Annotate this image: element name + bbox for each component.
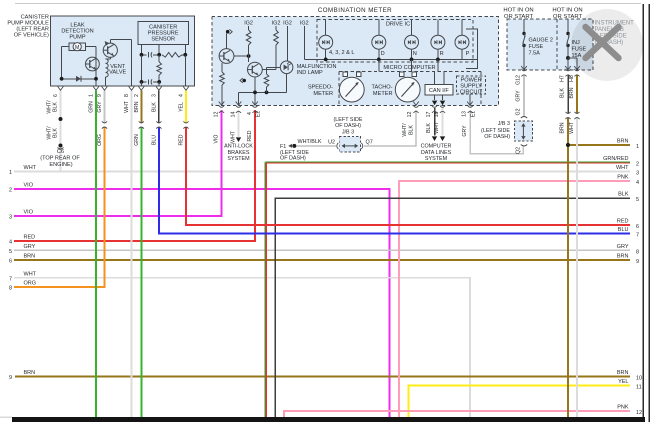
svg-text:HOT IN ON: HOT IN ON: [503, 8, 533, 14]
svg-text:OF DASH): OF DASH): [335, 123, 361, 129]
svg-text:WHT: WHT: [231, 130, 237, 143]
svg-text:Q7: Q7: [366, 140, 373, 146]
svg-text:BRN: BRN: [569, 87, 575, 98]
svg-text:9: 9: [9, 375, 12, 381]
svg-text:7: 7: [636, 233, 639, 239]
svg-text:OF DASH): OF DASH): [280, 156, 306, 162]
svg-text:WHT: WHT: [24, 271, 37, 277]
svg-text:H8: H8: [569, 75, 575, 82]
svg-text:7: 7: [9, 276, 12, 282]
svg-text:DRIVE IC: DRIVE IC: [386, 22, 410, 28]
svg-text:12: 12: [214, 112, 220, 118]
svg-text:RED: RED: [179, 134, 185, 145]
svg-text:VIO: VIO: [214, 135, 220, 144]
svg-text:DATA LINES: DATA LINES: [421, 150, 452, 156]
svg-text:GRN: GRN: [89, 101, 95, 113]
svg-text:1: 1: [636, 144, 639, 150]
svg-text:7.5A: 7.5A: [529, 51, 541, 57]
svg-text:OF DASH): OF DASH): [484, 134, 510, 140]
svg-text:ORG: ORG: [97, 134, 103, 146]
svg-text:BLK: BLK: [151, 102, 157, 112]
svg-text:VIO: VIO: [24, 183, 34, 189]
svg-text:PNK: PNK: [617, 405, 629, 411]
svg-text:8: 8: [636, 249, 639, 255]
svg-text:H7: H7: [560, 75, 566, 82]
svg-text:P: P: [466, 51, 470, 57]
svg-text:COMPUTER: COMPUTER: [421, 144, 452, 150]
svg-text:2: 2: [134, 94, 140, 97]
svg-text:2: 2: [9, 188, 12, 194]
svg-text:BLK: BLK: [426, 123, 432, 133]
svg-text:BLK: BLK: [53, 128, 59, 138]
svg-text:4: 4: [9, 239, 12, 245]
svg-text:U2: U2: [328, 140, 335, 146]
svg-text:RED: RED: [247, 130, 253, 141]
svg-text:14: 14: [231, 112, 237, 118]
svg-text:3: 3: [636, 171, 639, 177]
svg-text:11: 11: [636, 385, 642, 391]
svg-text:4: 4: [179, 94, 185, 97]
svg-text:VALVE: VALVE: [109, 70, 126, 76]
svg-text:BLK: BLK: [560, 88, 566, 98]
svg-text:GRY: GRY: [516, 90, 522, 102]
svg-text:YEL: YEL: [179, 102, 185, 112]
svg-text:METER: METER: [373, 91, 393, 97]
svg-text:M: M: [75, 45, 79, 51]
svg-text:C6: C6: [57, 149, 64, 155]
svg-text:4, 3, 2 & L: 4, 3, 2 & L: [329, 50, 355, 56]
svg-text:5: 5: [636, 197, 639, 203]
svg-text:YEL: YEL: [618, 379, 628, 385]
svg-text:13: 13: [462, 111, 468, 117]
svg-text:BLK: BLK: [53, 102, 59, 112]
svg-text:SENSOR: SENSOR: [151, 37, 175, 43]
svg-text:IG2: IG2: [272, 21, 281, 27]
svg-text:WHT: WHT: [124, 100, 130, 113]
svg-text:GRY: GRY: [97, 101, 103, 113]
svg-text:PNK: PNK: [617, 175, 629, 181]
svg-text:BRN: BRN: [560, 122, 566, 133]
svg-text:2: 2: [636, 162, 639, 168]
svg-text:(LEFT SIDE: (LEFT SIDE: [334, 117, 363, 123]
svg-text:WHT: WHT: [616, 165, 629, 171]
svg-text:J/B 3: J/B 3: [498, 121, 510, 127]
svg-text:IG2: IG2: [300, 21, 309, 27]
svg-text:R: R: [440, 51, 444, 57]
svg-text:WHT/: WHT/: [402, 123, 408, 137]
svg-text:WHT/BLK: WHT/BLK: [298, 139, 322, 145]
svg-text:CIRCUIT: CIRCUIT: [460, 89, 483, 95]
svg-text:(TOP REAR OF: (TOP REAR OF: [40, 156, 80, 162]
svg-text:IG2: IG2: [244, 21, 253, 27]
svg-text:18: 18: [434, 112, 440, 118]
svg-text:1: 1: [89, 94, 95, 97]
svg-text:WHT: WHT: [569, 121, 575, 134]
svg-text:D: D: [381, 51, 385, 57]
svg-text:6: 6: [53, 94, 59, 97]
svg-text:J/B 3: J/B 3: [342, 129, 354, 135]
svg-text:ORG: ORG: [24, 281, 37, 287]
svg-text:BRN: BRN: [134, 101, 140, 112]
svg-text:8: 8: [9, 286, 12, 292]
svg-text:TACHO-: TACHO-: [371, 85, 392, 91]
svg-text:PUMP: PUMP: [69, 35, 85, 41]
svg-text:N: N: [413, 51, 417, 57]
svg-text:GRY: GRY: [24, 244, 36, 250]
svg-text:3: 3: [9, 214, 12, 220]
svg-text:4: 4: [247, 112, 253, 115]
svg-text:SYSTEM: SYSTEM: [425, 156, 448, 162]
svg-text:COMBINATION METER: COMBINATION METER: [318, 7, 392, 14]
svg-text:IG2: IG2: [283, 21, 292, 27]
svg-text:INSTRUMENT: INSTRUMENT: [595, 21, 635, 27]
svg-text:BRN: BRN: [617, 139, 629, 145]
svg-text:1: 1: [9, 170, 12, 176]
svg-text:BLK: BLK: [618, 192, 629, 198]
svg-text:BRN: BRN: [24, 254, 36, 260]
svg-text:9: 9: [636, 259, 639, 265]
svg-text:METER: METER: [313, 91, 333, 97]
svg-text:GRN: GRN: [134, 134, 140, 146]
svg-text:ENGINE): ENGINE): [49, 162, 72, 168]
svg-text:BLU: BLU: [151, 135, 157, 145]
svg-text:HOT IN ON: HOT IN ON: [552, 8, 582, 14]
svg-text:FUSE: FUSE: [529, 44, 544, 50]
svg-text:3: 3: [151, 94, 157, 97]
svg-text:5: 5: [9, 249, 12, 255]
svg-text:BRN: BRN: [617, 370, 629, 376]
svg-text:6: 6: [9, 259, 12, 265]
svg-text:4: 4: [636, 180, 639, 186]
svg-text:BRN: BRN: [617, 254, 629, 260]
svg-text:BLU: BLU: [618, 227, 629, 233]
svg-text:GAUGE 2: GAUGE 2: [529, 38, 553, 44]
svg-text:G2: G2: [516, 108, 522, 115]
svg-text:9: 9: [97, 94, 103, 97]
svg-text:OR START: OR START: [504, 14, 534, 20]
svg-text:RED: RED: [617, 219, 629, 225]
svg-text:E2: E2: [256, 111, 262, 117]
svg-text:Q2: Q2: [515, 147, 521, 154]
svg-text:VIO: VIO: [24, 209, 34, 215]
svg-text:GRY: GRY: [617, 244, 629, 250]
svg-text:SPEEDO-: SPEEDO-: [308, 85, 333, 91]
svg-text:SYSTEM: SYSTEM: [227, 156, 250, 162]
svg-text:MICRO COMPUTER: MICRO COMPUTER: [383, 65, 435, 71]
svg-text:GRY: GRY: [462, 125, 468, 137]
svg-text:ANTI-LOCK: ANTI-LOCK: [224, 144, 253, 150]
svg-text:BLK: BLK: [409, 125, 415, 135]
svg-text:GRN/RED: GRN/RED: [603, 156, 628, 162]
svg-text:12: 12: [407, 112, 413, 118]
svg-text:OF VEHICLE): OF VEHICLE): [14, 33, 49, 39]
svg-text:BRAKES: BRAKES: [228, 150, 250, 156]
svg-text:G12: G12: [516, 75, 522, 85]
svg-text:RED: RED: [24, 234, 36, 240]
svg-text:CAN I/F: CAN I/F: [429, 88, 449, 94]
svg-text:WHT: WHT: [24, 165, 37, 171]
svg-text:10: 10: [636, 375, 642, 381]
svg-text:WHT: WHT: [434, 121, 440, 134]
svg-text:17: 17: [426, 112, 432, 118]
svg-text:BRN: BRN: [24, 370, 36, 376]
svg-text:6: 6: [636, 224, 639, 230]
svg-text:8: 8: [124, 94, 130, 97]
svg-text:E1: E1: [471, 111, 477, 117]
svg-text:12: 12: [636, 410, 642, 416]
svg-text:IND LAMP: IND LAMP: [297, 70, 323, 76]
